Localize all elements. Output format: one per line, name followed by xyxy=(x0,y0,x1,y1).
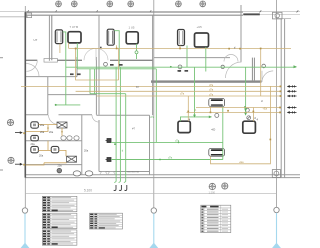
door arc se room xyxy=(262,71,273,82)
door arc corridor right xyxy=(226,62,242,78)
bathroom labels xyxy=(31,124,89,168)
wire green v left b xyxy=(94,69,96,94)
svg-text:+Ea: +Ea xyxy=(263,108,268,111)
svg-text:d7a: d7a xyxy=(150,116,155,119)
wire green v U2 xyxy=(136,44,138,59)
grid line C (x=276.5) xyxy=(276,0,278,208)
lower-mid room east wall xyxy=(149,115,151,174)
wire tan v right top xyxy=(260,48,262,96)
wire green v corridor c xyxy=(125,94,127,182)
bubble inner marks top xyxy=(57,3,204,6)
wire green v U1 xyxy=(76,43,78,69)
wire green v left a xyxy=(89,69,91,94)
wire green v corridor b xyxy=(119,67,121,181)
sensor circle room3 xyxy=(215,113,219,117)
legend table L2 xyxy=(42,213,77,228)
floor drain xyxy=(57,168,62,173)
door bumps bottom wall xyxy=(100,171,107,175)
wire tan FC3 drop xyxy=(179,46,181,49)
wire green v right drop xyxy=(245,67,247,114)
fan box 1 xyxy=(57,122,67,128)
wire tan v room3 S1 xyxy=(187,96,189,121)
wire green main horizontal xyxy=(66,66,296,68)
building south wall inner xyxy=(25,174,300,176)
wire green h lower 2 xyxy=(111,159,223,161)
wire green v U3 xyxy=(205,47,207,72)
wall right step xyxy=(277,18,292,20)
AC unit U2 xyxy=(126,32,138,44)
dimension ticks top xyxy=(27,10,298,12)
corner box top-left xyxy=(27,13,32,18)
sink pair 2 xyxy=(74,136,79,140)
column box top-right xyxy=(273,12,283,19)
grid bubbles left xyxy=(7,119,14,163)
svg-text:d7a: d7a xyxy=(180,93,185,96)
wire green hooks bottom xyxy=(114,182,125,183)
wall stub right corridor xyxy=(251,58,253,81)
wall top inner xyxy=(25,14,243,16)
wire green v lower right xyxy=(222,107,224,160)
riser line blue A xyxy=(25,213,277,244)
legend table L3 xyxy=(42,230,77,245)
sensor circle corridor 3 xyxy=(262,64,266,68)
door arc pair top-right xyxy=(224,55,231,62)
floor unit S1 xyxy=(178,121,190,132)
column box bottom-right xyxy=(272,170,280,178)
wall top outer xyxy=(25,11,243,13)
fan unit FC2 xyxy=(107,29,114,45)
grid bubbles bottom xyxy=(209,183,228,190)
fan box 2 xyxy=(67,156,77,162)
wire tan v left xyxy=(76,48,119,80)
dimension line top xyxy=(0,11,300,13)
wire green v riser-mid xyxy=(155,69,157,143)
wall room divider 3 xyxy=(152,15,154,115)
corridor south wall xyxy=(151,80,262,82)
legend table L1 xyxy=(42,196,77,211)
green arrowheads xyxy=(55,65,297,160)
svg-text:20a: 20a xyxy=(84,150,89,153)
wire tan h C xyxy=(96,95,280,97)
grid line A (x=25) xyxy=(24,6,26,208)
label ZUL pair 2 xyxy=(110,64,123,66)
wire green v corridor a xyxy=(115,67,117,181)
wire green second horizontal xyxy=(77,68,156,70)
wire tan U1 drop xyxy=(68,43,70,49)
feeder arrow left 1 xyxy=(15,131,23,134)
legend table R1 xyxy=(201,205,231,232)
wire tan v S2 xyxy=(252,108,254,122)
riser hooks J J J xyxy=(114,185,127,190)
wire green h to corridor c xyxy=(90,93,126,95)
door arc double left leaf xyxy=(84,48,96,60)
toilet 1 xyxy=(31,122,39,128)
wall right inner xyxy=(280,19,282,178)
wire green v room3 drop xyxy=(194,67,196,117)
label 4 dark wall xyxy=(100,47,102,48)
wire green h room-left xyxy=(56,104,81,106)
label ZUL pair 1 xyxy=(70,73,81,75)
bathroom wire dots xyxy=(23,127,63,165)
wire green h room3 lower xyxy=(181,117,212,121)
homerun arrow 3 xyxy=(288,95,297,97)
wall top dark bar xyxy=(243,13,259,15)
left small room wall xyxy=(25,76,77,78)
riser arrow blue B xyxy=(149,243,158,248)
svg-text:U7: U7 xyxy=(34,38,38,42)
homerun arrow 2 xyxy=(288,90,297,92)
homerun arrow 5 xyxy=(288,111,297,113)
lower-mid room south wall xyxy=(99,171,150,173)
sensor circle hall xyxy=(104,62,108,66)
dimension line bottom xyxy=(25,193,277,195)
svg-text:+U5: +U5 xyxy=(197,25,203,29)
toilet seats xyxy=(33,124,56,151)
grid bubbles top xyxy=(56,1,206,7)
node circle B xyxy=(151,208,156,213)
wire tan FC2 drop xyxy=(116,45,118,48)
riser arrow blue A xyxy=(21,243,30,248)
wire tan h A xyxy=(21,85,281,87)
urinal 1 xyxy=(73,171,81,176)
AC unit U3 xyxy=(195,33,209,47)
svg-text:d7a: d7a xyxy=(209,89,214,92)
wire tan v far right xyxy=(211,86,271,163)
svg-text:d7a: d7a xyxy=(209,93,214,96)
corridor north wall xyxy=(25,59,37,61)
valve circle slash xyxy=(247,116,251,120)
sensor circle room4 xyxy=(245,108,249,112)
door arc corridor left xyxy=(26,60,37,71)
wall box K2 xyxy=(106,158,112,162)
svg-text:20a: 20a xyxy=(40,131,45,134)
door arc room left xyxy=(26,64,39,77)
wire green v FC1 xyxy=(63,32,66,105)
svg-text:d7a: d7a xyxy=(209,84,214,87)
bathroom tan wiring xyxy=(26,125,67,165)
svg-text:20a: 20a xyxy=(39,154,44,157)
tan junction dots xyxy=(75,48,282,141)
AC unit U1 xyxy=(68,32,81,43)
svg-text:d7a: d7a xyxy=(168,157,173,160)
feeder arrow left 2 xyxy=(15,163,23,166)
wire tan h B xyxy=(76,90,281,92)
wall top-right thin xyxy=(243,13,300,15)
svg-text:d7a: d7a xyxy=(175,139,180,142)
sensor circle corridor 2 xyxy=(221,65,224,68)
wire green h lower 1 xyxy=(111,141,223,143)
building south wall outer xyxy=(25,177,300,179)
wall x99 lower xyxy=(98,120,100,172)
ledge line top-left xyxy=(0,16,28,18)
valve symbol green U2 xyxy=(135,51,138,54)
wire tan FC1 drop xyxy=(59,44,61,53)
ceiling unit V2 xyxy=(209,148,225,156)
bathroom divider 2 xyxy=(25,164,82,166)
svg-text:1 U5: 1 U5 xyxy=(129,25,135,29)
floor unit S2 xyxy=(243,121,256,133)
wire tan v room3 top xyxy=(118,48,120,80)
sink pair 1 xyxy=(61,136,66,140)
door arc double right leaf xyxy=(96,48,108,60)
wall left dark xyxy=(24,12,26,178)
label ZUL pair 4 xyxy=(178,70,189,72)
homerun arrow 1 xyxy=(288,85,297,87)
toilet 4 xyxy=(51,146,59,152)
svg-text:20a: 20a xyxy=(58,164,63,167)
svg-text:ma ma ma: ma ma ma xyxy=(127,170,139,173)
wire tan h E xyxy=(187,111,281,113)
ceiling unit V1 xyxy=(209,98,225,106)
wall room divider 2 xyxy=(98,15,100,115)
wall right outer xyxy=(284,19,286,178)
wall room divider 1 xyxy=(48,15,50,61)
door arc bathroom 2 xyxy=(92,115,99,122)
fan unit FC1 xyxy=(55,30,62,44)
room divider wall mid-left xyxy=(47,77,49,115)
wire tan main horizontal xyxy=(69,47,291,49)
node circle C xyxy=(274,207,279,212)
svg-text:20a: 20a xyxy=(40,124,45,127)
toilet 3 xyxy=(31,146,39,152)
toilet 2 xyxy=(31,135,39,140)
riser arrow blue C xyxy=(272,243,281,248)
wire tan h D xyxy=(196,107,280,109)
svg-text:▪ID: ▪ID xyxy=(212,128,216,132)
fan unit FC3 xyxy=(178,30,185,46)
edge tick marks xyxy=(0,58,3,170)
urinal 2 xyxy=(85,171,93,176)
sensor circle corridor 1 xyxy=(178,65,182,69)
wall box K1 xyxy=(106,139,112,143)
svg-text:B7: B7 xyxy=(136,85,140,89)
svg-text:20a: 20a xyxy=(49,131,54,134)
wire green v FC3 xyxy=(186,46,188,68)
bathroom north wall xyxy=(25,114,48,116)
svg-text:#7: #7 xyxy=(132,127,136,131)
svg-text:20a: 20a xyxy=(31,143,36,146)
node circle A xyxy=(22,208,27,213)
door arc bathroom 1 xyxy=(49,115,59,124)
svg-text:5.100: 5.100 xyxy=(84,188,92,192)
wire green v FC2 xyxy=(114,31,119,67)
bathroom east wall xyxy=(81,115,83,175)
svg-text:+Ea: +Ea xyxy=(239,161,244,164)
wire tan v V1 xyxy=(210,107,212,113)
homerun arrow 4 xyxy=(288,107,297,109)
wall room divider 4 xyxy=(240,5,242,62)
legend table C1 xyxy=(90,213,123,229)
grid line B (x=154) xyxy=(153,0,155,208)
svg-text:7 U7 B: 7 U7 B xyxy=(70,25,79,29)
bathroom divider 1 xyxy=(25,140,82,142)
